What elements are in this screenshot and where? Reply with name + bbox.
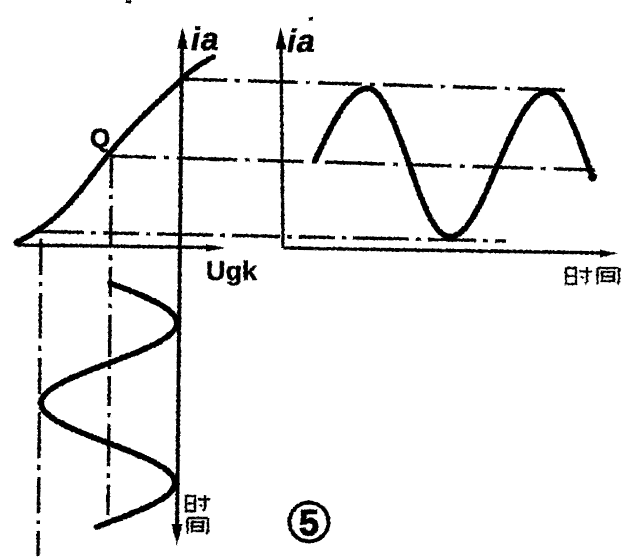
scan speck top left — [126, 0, 131, 3]
horizontal axis Ugk — [16, 245, 212, 248]
blob at lower end of transfer curve — [14, 238, 21, 245]
transfer characteristic curve — [16, 57, 213, 243]
svg-text:ia: ia — [191, 21, 220, 57]
blob at end of output wave — [588, 173, 597, 182]
bottom dash-dot level line (cutoff level) — [36, 232, 506, 242]
vertical dash-dot line through Q — [108, 158, 112, 516]
arrowhead of right time axis — [600, 250, 618, 258]
arrowhead top of left ia axis — [177, 27, 188, 49]
svg-text:5: 5 — [299, 502, 319, 543]
time axis label 时间 (right chart) — [566, 267, 619, 284]
left vertical axis ia / time axis — [177, 44, 182, 532]
figure number circled 5 — [290, 503, 329, 542]
right vertical axis ia — [281, 44, 283, 248]
top dash-dot level line (peak level) — [183, 79, 565, 90]
time axis label (vertical) 时间 — [186, 495, 210, 534]
arrowhead of Ugk axis — [206, 244, 225, 252]
output signal sine wave — [315, 88, 591, 236]
svg-text:Ugk: Ugk — [206, 256, 258, 286]
input signal sine wave (vertical) — [41, 283, 177, 527]
svg-text:ia: ia — [287, 23, 316, 59]
arrowhead top of right ia axis — [276, 27, 287, 49]
svg-text:Q: Q — [90, 123, 110, 153]
arrowhead bottom of left time axis — [172, 524, 183, 546]
vertical dash-dot line at left amplitude limit — [38, 239, 41, 556]
scan speck above right ia label — [309, 17, 313, 21]
middle dash-dot level line (Q level) — [110, 156, 595, 170]
right horizontal time axis — [283, 248, 604, 253]
